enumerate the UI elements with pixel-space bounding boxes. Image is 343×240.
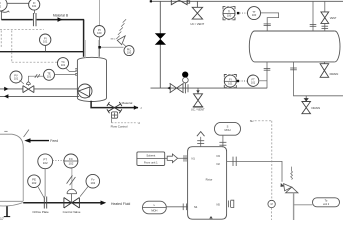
svg-text:From unit 1: From unit 1	[144, 160, 158, 164]
line capsule to vessel N3	[222, 135, 224, 147]
branch to capsule	[294, 204, 313, 206]
jog to drum nozzle	[260, 13, 278, 31]
FV leader to control valve	[80, 186, 88, 196]
instrument circle D	[44, 69, 55, 80]
M circle	[268, 200, 275, 207]
N5 capped nozzle	[228, 201, 230, 208]
stub to pipe	[45, 45, 47, 51]
flow arrow jacket return	[4, 94, 8, 98]
neck (light)	[86, 40, 99, 58]
orifice plate bars on pipe	[32, 13, 34, 26]
svg-text:102: 102	[90, 181, 95, 185]
header valve	[170, 83, 184, 93]
leader from PV circle	[20, 80, 24, 84]
line circle D to vessel nozzle 2	[55, 73, 77, 75]
TT circle	[248, 7, 261, 20]
PSV relief valve	[284, 184, 292, 191]
line capsule to N4	[166, 206, 187, 208]
vessel bottom drain tick	[209, 216, 212, 219]
sample point ball	[182, 72, 188, 78]
svg-text:N3: N3	[217, 154, 221, 158]
Feed arrow	[30, 140, 49, 142]
bottom header y=88	[151, 87, 268, 89]
signal line to FI	[7, 2, 29, 4]
jacket return pipe	[0, 95, 79, 97]
svg-text:101: 101	[228, 81, 233, 85]
junction dot TI output	[237, 12, 239, 14]
drum feed line	[312, 1, 314, 31]
svg-text:Flow Control: Flow Control	[111, 125, 128, 129]
flow arrow on header	[167, 86, 170, 90]
flange pair N2	[232, 157, 234, 166]
flange pair N1	[183, 155, 185, 162]
vent valve top right	[324, 1, 326, 12]
dotted signal FI to FT	[239, 80, 247, 82]
PSV outlet pipe	[293, 193, 295, 220]
svg-text:SH: SH	[250, 119, 254, 123]
dashed signal drop	[271, 121, 273, 201]
instrument circle E	[10, 71, 22, 83]
outlet valve	[107, 102, 122, 113]
connector to vessel nozzle 1	[66, 68, 77, 72]
svg-text:MOH: MOH	[224, 128, 230, 132]
vent arrow to atmosphere	[117, 36, 125, 45]
svg-text:N2: N2	[217, 162, 221, 166]
instrument FI circle	[29, 0, 40, 10]
dotted signal TI to TT	[240, 12, 248, 14]
instrument circle TC	[57, 58, 68, 69]
vent chevron top	[197, 132, 205, 137]
Solvent box + block arrow	[137, 152, 165, 166]
dotted signal PT to FC	[53, 159, 64, 161]
small tick above tank	[4, 130, 7, 132]
svg-text:MOH: MOH	[151, 208, 157, 212]
svg-text:UC / VENT: UC / VENT	[190, 22, 204, 26]
tank drain	[6, 206, 8, 216]
svg-text:101: 101	[14, 77, 19, 81]
drum bottom nozzle 2 + drain header	[294, 62, 343, 96]
svg-text:DRAIN: DRAIN	[312, 106, 321, 110]
UC/VENT 1	[196, 1, 198, 7]
junction dot FI output	[237, 80, 239, 82]
svg-text:100: 100	[127, 50, 132, 54]
nozzle stubs	[75, 68, 77, 70]
svg-text:unit 2: unit 2	[323, 202, 330, 206]
signal from FC down with //	[71, 168, 73, 189]
svg-text:102: 102	[68, 161, 73, 165]
valve actuator chevron	[26, 82, 30, 84]
agitator circle	[78, 84, 92, 98]
flange pair N4	[182, 204, 184, 211]
dashed signal below M	[271, 208, 273, 220]
svg-text:Heated Fluid: Heated Fluid	[111, 202, 130, 206]
svg-text:101: 101	[32, 4, 37, 8]
flow control dashed tail	[111, 118, 113, 123]
black valve on drop line	[159, 1, 161, 88]
drain 1	[323, 62, 325, 64]
flow arrow	[58, 17, 63, 22]
svg-text:17: 17	[0, 217, 4, 220]
svg-text:Material B: Material B	[53, 14, 69, 18]
drain 2	[305, 96, 307, 102]
svg-text:VENT: VENT	[330, 17, 337, 20]
valve actuator box	[111, 112, 117, 118]
pipe down to vessel	[83, 20, 85, 57]
svg-text:Material: Material	[122, 101, 133, 105]
UC/VENT 2	[197, 88, 199, 94]
svg-text:100: 100	[227, 13, 232, 17]
svg-text:101: 101	[61, 63, 66, 67]
flow arrow jacket inlet	[4, 87, 8, 91]
instrument bubble (edge, cut)	[0, 0, 7, 11]
dashed signal right	[255, 120, 272, 122]
N2 line to PSV	[227, 161, 282, 181]
slash tick at tank shoulder	[24, 130, 29, 137]
svg-text:Rxtor: Rxtor	[206, 178, 213, 182]
PSV spring	[291, 167, 293, 180]
svg-text:Control Valve: Control Valve	[63, 210, 81, 214]
svg-text:101: 101	[251, 80, 256, 84]
PT tap line to orifice	[44, 169, 46, 197]
line into N1	[178, 157, 188, 159]
connector stub	[165, 157, 168, 159]
TI square instrument	[223, 7, 235, 20]
svg-text:102: 102	[32, 181, 37, 185]
svg-text:Feed: Feed	[50, 139, 58, 143]
svg-text:UC / VENT: UC / VENT	[191, 108, 205, 112]
svg-text:101: 101	[43, 39, 48, 43]
FI square + TT pair at y=81	[224, 75, 236, 88]
FV circle	[86, 174, 100, 188]
PSE circle	[123, 44, 134, 56]
drum bottom nozzle 1 to header	[266, 62, 268, 88]
svg-text:N1: N1	[192, 157, 196, 161]
svg-text:101: 101	[47, 75, 52, 79]
pipe elbow from top	[0, 11, 2, 20]
svg-text:N5: N5	[217, 202, 221, 206]
PE leader to orifice	[38, 187, 45, 199]
header valve	[171, 0, 187, 5]
control valve	[64, 198, 80, 209]
capsule S-MOH	[215, 122, 241, 135]
svg-text:DRAIN: DRAIN	[330, 72, 339, 76]
svg-text:N4: N4	[194, 205, 198, 209]
capsule To-unit	[313, 198, 340, 207]
FT circle	[247, 75, 258, 86]
PSV inlet arrow	[281, 183, 285, 187]
PT circle	[38, 154, 53, 169]
orifice plate bars	[43, 197, 45, 209]
dashed signal rectangle	[0, 28, 44, 30]
instrument circle B	[40, 34, 51, 45]
FC circle	[64, 154, 78, 168]
svg-text:Solvent: Solvent	[146, 153, 155, 157]
vessel outlet pipe	[91, 101, 138, 108]
header line	[150, 0, 343, 2]
svg-text:S: S	[227, 124, 229, 128]
svg-text:Orifice Plate: Orifice Plate	[32, 210, 49, 214]
capsule L-MOH bottom + N4 line	[143, 201, 167, 214]
svg-text:100: 100	[97, 31, 102, 35]
PE circle	[28, 175, 41, 188]
block arrow into N1	[167, 154, 177, 163]
signal with // to valve actuator	[28, 76, 43, 81]
stub FI to orifice	[34, 10, 36, 13]
pipe Material B	[1, 19, 32, 21]
jacket inlet valve	[23, 86, 34, 93]
svg-text:102: 102	[43, 161, 48, 165]
flow arrow on outlet pipe	[134, 105, 139, 109]
svg-text:100: 100	[252, 13, 257, 17]
svg-text:FI: FI	[229, 77, 232, 81]
svg-text:TI: TI	[228, 9, 231, 13]
jacket inlet pipe	[0, 88, 23, 90]
vent header line	[101, 46, 124, 48]
svg-text:M: M	[271, 203, 273, 206]
long pipe into vessel area	[0, 51, 84, 53]
